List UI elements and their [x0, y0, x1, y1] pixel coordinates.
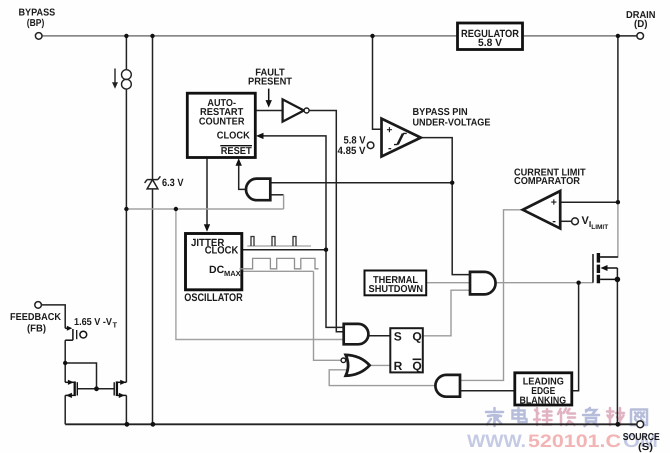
wire auto-restart box bottom to oscillator arrow: [206, 158, 208, 230]
svg-text:(BP): (BP): [27, 18, 45, 29]
watermark char 5: [583, 408, 599, 426]
svg-text:RESET: RESET: [221, 146, 252, 157]
watermark char 7: [631, 410, 647, 426]
wire bypass vertical with current source: [125, 36, 127, 69]
wire mirror gate line: [78, 388, 114, 390]
watermark char 2: [513, 408, 527, 422]
wire drain vertical to comparator junction: [617, 36, 619, 202]
wire OR output to latch R (gray): [370, 364, 391, 366]
wire bottom source rail: [65, 423, 637, 425]
svg-text:SHUTDOWN: SHUTDOWN: [369, 284, 424, 295]
terminal FEEDBACK (FB): [35, 302, 42, 309]
node drain junction: [616, 34, 620, 38]
svg-text:520101.C: 520101.C: [528, 431, 621, 451]
node clock junction: [324, 248, 328, 252]
current source IBP: [115, 69, 131, 90]
watermark char 4: [558, 409, 575, 426]
box THERMAL SHUTDOWN: [365, 271, 427, 296]
transistor mirror right NMOS: [114, 381, 126, 396]
wire reset AND bottom input jog: [270, 194, 283, 196]
arrow RESET input up: [236, 158, 242, 166]
wire fault inverter input: [255, 110, 283, 112]
wire current limit comparator plus input: [560, 201, 618, 203]
WATERMARK: [467, 408, 658, 451]
wire pFET source down to mirror node: [64, 340, 66, 382]
svg-text:6.3 V: 6.3 V: [162, 177, 184, 189]
node rail junction 2: [151, 422, 156, 427]
node gate-LEB junction: [576, 281, 580, 285]
box REGULATOR 5.8V: [458, 23, 523, 50]
svg-text:T: T: [113, 320, 118, 329]
node reset line junction: [450, 181, 454, 185]
svg-text:BYPASS: BYPASS: [19, 8, 56, 19]
wire drain vertical comparator junction to mosfet (gray): [600, 202, 618, 257]
node BP-current source junction: [124, 34, 128, 38]
wire LEB input from AND: [460, 390, 515, 392]
svg-text:(FB): (FB): [27, 323, 46, 334]
node drain sense junction: [616, 200, 620, 204]
node mosfet source junction: [615, 277, 621, 283]
terminal UV reference 5.8/4.85: [367, 142, 374, 149]
terminal DRAIN (D): [637, 33, 644, 40]
watermark char 1: [486, 408, 503, 426]
wire mirror node right then down to gates: [65, 363, 96, 389]
wire DCmax down to OR gate bubble: [314, 271, 341, 360]
watermark www.520101.com: [467, 431, 658, 451]
gate reset AND (mirrored): [246, 179, 270, 201]
svg-text:-: -: [552, 215, 556, 227]
wire clock net vertical, up to CLOCK input and down to S AND top input: [258, 136, 344, 328]
svg-text:-: -: [388, 143, 392, 155]
node mirror input junction: [63, 361, 67, 365]
wire BP top rail right of regulator: [523, 35, 618, 37]
svg-text:MAX: MAX: [224, 269, 241, 278]
svg-text:BLANKING: BLANKING: [520, 396, 567, 407]
wire BP top rail left: [42, 35, 457, 37]
wire zener vertical: [152, 36, 154, 424]
node rail junction 1: [125, 422, 130, 427]
svg-text:PRESENT: PRESENT: [248, 76, 292, 87]
wire gate drive from thermal AND output to mosfet gate: [496, 282, 594, 284]
node BP-zener junction: [150, 34, 154, 38]
wire LEB right side up to gate node: [572, 283, 579, 391]
op-amp BYPASS PIN UNDER-VOLTAGE comparator: [382, 119, 421, 157]
svg-text:4.85 V: 4.85 V: [338, 145, 366, 157]
box AUTO-RESTART COUNTER: [187, 93, 255, 157]
svg-text:OSCILLATOR: OSCILLATOR: [184, 292, 243, 304]
terminal VILIMIT: [572, 218, 579, 225]
wire UV comparator output right then down to thermal AND top input: [421, 138, 471, 275]
wire reset AND output to RESET arrow: [239, 161, 246, 189]
wire drain dot to terminal: [618, 35, 637, 37]
wire left mirror source to bottom rail: [64, 395, 66, 424]
latch SR: [390, 328, 423, 372]
arrow CLOCK input left: [256, 133, 264, 139]
svg-text:1.65 V -V: 1.65 V -V: [74, 317, 112, 328]
wire oscillator clock output to junction: [242, 249, 326, 251]
box JITTER CLOCK / DCMAX oscillator: [186, 234, 242, 290]
wire right mirror source to bottom rail: [125, 395, 127, 424]
svg-text:(D): (D): [634, 19, 648, 30]
svg-text:+: +: [387, 125, 393, 136]
node bias line mid junction: [174, 207, 178, 211]
svg-text:COUNTER: COUNTER: [199, 116, 245, 127]
wire inverter output down to S AND middle input: [309, 111, 344, 332]
wire reset line from UV output junction to reset AND top input: [270, 182, 452, 184]
gate thermal AND: [470, 272, 496, 295]
transistor FB p-MOSFET: [65, 328, 77, 340]
wire feedback terminal to pFET: [41, 305, 65, 328]
gate LEB AND (mirrored): [435, 375, 460, 397]
node UV sense junction: [370, 34, 374, 38]
arrow FAULT PRESENT down: [268, 89, 270, 101]
svg-text:S: S: [394, 330, 402, 344]
svg-text:+: +: [551, 197, 557, 209]
svg-text:5.8 V: 5.8 V: [478, 37, 502, 49]
wire latch Q output up to thermal AND bottom input (gray): [423, 290, 470, 336]
wire mosfet source down to bottom rail: [616, 268, 618, 424]
arrow counter to oscillator down: [204, 224, 210, 232]
svg-text:UNDER-VOLTAGE: UNDER-VOLTAGE: [413, 118, 491, 129]
svg-text:FEEDBACK: FEEDBACK: [10, 312, 62, 323]
gate S AND: [344, 324, 369, 344]
svg-text:Q: Q: [412, 330, 421, 344]
wire gray oscillator feed down then right to S AND bottom input: [176, 209, 344, 340]
transistor output MOSFET: [593, 253, 618, 283]
box LEADING EDGE BLANKING: [515, 373, 572, 405]
terminal BYPASS (BP): [35, 33, 42, 40]
transistor mirror left NMOS: [65, 381, 77, 396]
wire thermal shutdown box to AND (gray): [426, 282, 470, 284]
wire LEB AND output to OR gate lower input (gray): [329, 370, 435, 386]
wire DCmax output line: [242, 270, 314, 272]
waveform DCmax square wave: [240, 258, 319, 268]
svg-text:BYPASS PIN: BYPASS PIN: [413, 107, 468, 118]
wire S AND output to latch S: [368, 335, 390, 337]
wire UV plus input from top rail: [373, 36, 382, 129]
watermark char 6: [607, 408, 624, 425]
svg-text:COMPARATOR: COMPARATOR: [514, 176, 581, 187]
wire current limit comparator output (gray, down to LEB AND): [460, 210, 523, 381]
svg-text:WWW.: WWW.: [467, 431, 526, 451]
gate R OR with inverted input: [346, 355, 370, 376]
zener diode 6.3V: [145, 176, 161, 189]
watermark char 3: [534, 408, 552, 425]
wire gray bias line y209: [126, 208, 283, 210]
terminal SOURCE (S): [637, 421, 644, 428]
node rail source junction: [615, 422, 620, 427]
op-amp CURRENT LIMIT comparator: [523, 191, 560, 229]
svg-text:DC: DC: [209, 264, 225, 276]
svg-text:CLOCK: CLOCK: [217, 131, 251, 142]
inverter fault buffer: [283, 99, 304, 121]
node bias line left junction: [124, 207, 128, 211]
wire current limit comparator minus input: [560, 220, 571, 222]
waveform jitter clock pulses: [247, 237, 311, 247]
svg-text:(S): (S): [638, 442, 653, 453]
svg-text:R: R: [394, 359, 403, 373]
svg-text:Q: Q: [412, 359, 421, 373]
svg-text:CLOCK: CLOCK: [205, 245, 239, 257]
node mirror gate junction: [94, 386, 99, 391]
